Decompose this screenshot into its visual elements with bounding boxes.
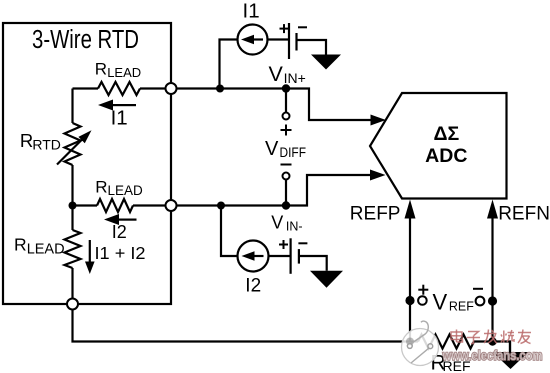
svg-text:REFN: REFN [498, 204, 550, 225]
svg-text:LEAD: LEAD [107, 65, 141, 80]
svg-text:www.elecfans.com: www.elecfans.com [442, 347, 543, 363]
svg-text:I2: I2 [245, 275, 261, 296]
svg-text:V: V [433, 290, 448, 315]
svg-text:REF: REF [449, 300, 474, 314]
svg-text:IN+: IN+ [284, 70, 306, 86]
svg-text:R: R [14, 235, 27, 255]
svg-text:DIFF: DIFF [280, 145, 307, 160]
svg-text:I1: I1 [111, 107, 128, 130]
svg-text:ΔΣ: ΔΣ [433, 123, 459, 145]
svg-text:V: V [265, 138, 279, 160]
svg-text:ADC: ADC [425, 145, 467, 167]
svg-text:I1 + I2: I1 + I2 [95, 243, 146, 263]
svg-text:RTD: RTD [32, 136, 61, 152]
svg-text:LEAD: LEAD [108, 183, 144, 198]
svg-text:R: R [95, 60, 107, 79]
svg-text:3-Wire RTD: 3-Wire RTD [32, 26, 139, 54]
svg-text:V: V [269, 62, 284, 86]
svg-text:I1: I1 [243, 0, 260, 23]
svg-text:LEAD: LEAD [27, 241, 65, 257]
svg-text:R: R [20, 130, 33, 151]
svg-text:REFP: REFP [350, 204, 401, 225]
svg-text:IN-: IN- [286, 220, 303, 234]
svg-text:I2: I2 [112, 222, 127, 242]
svg-text:R: R [95, 178, 107, 197]
svg-text:V: V [271, 212, 283, 232]
